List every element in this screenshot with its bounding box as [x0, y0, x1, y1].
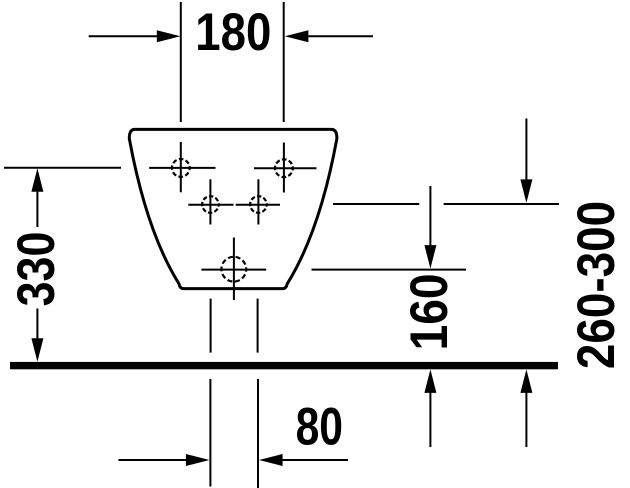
- dim 180 left arrow line: [89, 35, 158, 37]
- dim 260-300 extension line left part: [333, 203, 419, 205]
- hole ML dashed circle: [202, 196, 219, 213]
- dim 330 line lower: [36, 309, 38, 341]
- hole B cross horizontal: [201, 269, 266, 271]
- hole B dashed circle: [221, 257, 246, 282]
- dim 330 extension line: [4, 167, 121, 169]
- hole UL cross horizontal: [149, 167, 215, 169]
- hole UR cross vertical: [283, 143, 285, 193]
- dim 260-300 lower line: [525, 391, 527, 447]
- svg-text:330: 330: [7, 232, 65, 307]
- drain right line: [257, 379, 259, 488]
- dim 260-300 upper line: [525, 119, 527, 182]
- dim 160 extension line: [312, 269, 467, 271]
- drain left line: [209, 379, 211, 487]
- dim 260-300 lower up arrowhead: [520, 369, 532, 393]
- svg-text:80: 80: [296, 397, 343, 456]
- drain right line above floor: [257, 299, 259, 353]
- dim 180 left extension line: [180, 2, 182, 122]
- dim 330 up arrowhead: [31, 168, 43, 192]
- svg-text:260-300: 260-300: [566, 201, 626, 369]
- dim 330 line upper: [36, 190, 38, 227]
- svg-text:160: 160: [399, 273, 459, 350]
- dim 160 upper down arrowhead: [424, 245, 436, 269]
- dim 330 down arrowhead: [31, 338, 43, 362]
- dim 180 right arrow line: [308, 35, 373, 37]
- dim 260-300 upper down arrowhead: [520, 179, 532, 203]
- hole ML cross horizontal: [188, 204, 233, 206]
- dim 260-300 extension line right part: [444, 203, 559, 205]
- dim 180 left arrowhead: [157, 30, 181, 42]
- hole B cross vertical: [233, 238, 235, 301]
- hole UL dashed circle: [172, 159, 190, 177]
- dim 80 left arrow line: [118, 459, 187, 461]
- dim 180 right arrowhead: [285, 30, 309, 42]
- hole ML cross vertical: [209, 179, 211, 224]
- dim 160 lower up arrowhead: [424, 369, 436, 393]
- hole UR cross horizontal: [254, 167, 317, 169]
- hole UR dashed circle: [275, 159, 293, 177]
- dim 80 left arrowhead: [186, 454, 210, 466]
- hole MR cross horizontal: [236, 204, 280, 206]
- dim 80 right arrow line: [283, 459, 348, 461]
- bidet body outline: [129, 129, 337, 288]
- hole UL cross vertical: [180, 142, 182, 192]
- dim 80 right arrowhead: [259, 454, 283, 466]
- hole MR dashed circle: [250, 196, 267, 213]
- hole MR cross vertical: [257, 179, 259, 224]
- dim 160 upper line: [429, 186, 431, 247]
- dim 180 right extension line: [283, 2, 285, 122]
- svg-text:180: 180: [195, 3, 271, 62]
- dim 160 lower line: [429, 391, 431, 447]
- floor line: [10, 362, 558, 369]
- drain left line above floor: [210, 299, 212, 353]
